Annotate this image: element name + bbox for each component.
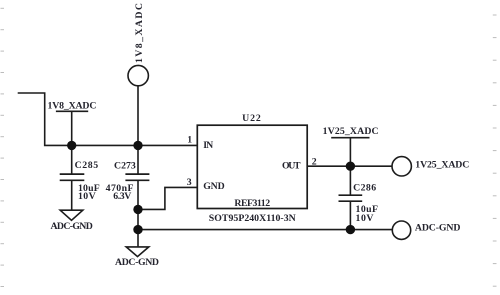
- svg-text:ADC-GND: ADC-GND: [415, 223, 461, 234]
- svg-text:1V8_XADC: 1V8_XADC: [48, 100, 97, 111]
- svg-text:ADC-GND: ADC-GND: [115, 257, 159, 268]
- svg-text:ADC-GND: ADC-GND: [51, 221, 93, 232]
- svg-text:OUT: OUT: [282, 160, 301, 171]
- svg-text:U22: U22: [242, 113, 261, 124]
- svg-text:IN: IN: [203, 140, 213, 151]
- svg-text:3: 3: [187, 177, 192, 188]
- svg-text:1: 1: [187, 134, 192, 145]
- svg-text:10V: 10V: [78, 191, 96, 202]
- svg-text:SOT95P240X110-3N: SOT95P240X110-3N: [209, 213, 296, 224]
- svg-text:C285: C285: [75, 160, 99, 171]
- svg-text:6.3V: 6.3V: [113, 191, 131, 202]
- svg-text:1V25_XADC: 1V25_XADC: [323, 126, 379, 137]
- svg-text:GND: GND: [203, 181, 225, 192]
- svg-text:C286: C286: [353, 182, 376, 193]
- svg-text:10V: 10V: [356, 213, 374, 224]
- svg-text:C273: C273: [114, 160, 136, 171]
- svg-text:2: 2: [312, 156, 317, 167]
- svg-text:REF3112: REF3112: [234, 198, 270, 209]
- svg-text:1V25_XADC: 1V25_XADC: [415, 159, 469, 170]
- svg-text:1V8_XADC: 1V8_XADC: [134, 3, 145, 63]
